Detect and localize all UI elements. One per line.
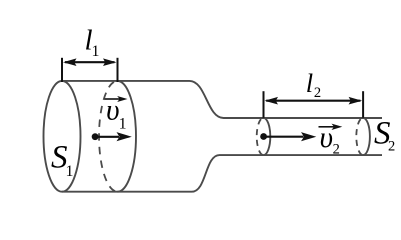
svg-text:2: 2 xyxy=(314,85,321,101)
svg-text:l: l xyxy=(306,68,313,98)
svg-text:2: 2 xyxy=(333,142,340,158)
svg-text:1: 1 xyxy=(66,163,74,180)
svg-text:1: 1 xyxy=(119,116,127,133)
node: cross-section ellipse at l1, dashed back half xyxy=(99,81,117,192)
wire: wide pipe bottom wall with taper into narrow tube bottom wall xyxy=(62,155,382,192)
svg-text:2: 2 xyxy=(388,139,395,155)
wire: velocity vector v2 thick arrow xyxy=(264,132,317,141)
wire: dimension tick left of l1 xyxy=(61,58,63,82)
wire: l1 double-headed dimension arrow xyxy=(63,58,117,66)
label v1 with vector accent arrow xyxy=(105,96,128,102)
node S2: narrow tube exit ellipse, dashed back half xyxy=(356,118,363,155)
wire: dimension tick right of l1 xyxy=(117,58,119,82)
wire: wide pipe top wall with taper into narrow tube top wall xyxy=(62,81,382,118)
wire: dimension tick right of l2 xyxy=(362,91,364,118)
svg-text:υ: υ xyxy=(106,95,120,127)
node: cross-section ellipse at l1, solid front half xyxy=(118,81,136,192)
svg-text:υ: υ xyxy=(320,122,334,154)
node: narrow tube entrance ellipse, solid front half xyxy=(264,118,271,155)
label v2 with vector accent arrow xyxy=(319,124,343,130)
node: narrow tube entrance ellipse, dashed back half xyxy=(257,118,264,155)
svg-text:1: 1 xyxy=(92,43,100,60)
node: flow marker dot in narrow tube xyxy=(260,133,267,140)
node: flow marker dot in wide cylinder xyxy=(92,133,99,140)
wire: dimension tick left of l2 xyxy=(263,91,265,118)
wire: velocity vector v1 thick arrow xyxy=(95,132,132,141)
wire: l2 double-headed dimension arrow xyxy=(265,97,363,105)
node S2: narrow tube exit ellipse, solid front half xyxy=(363,118,370,155)
node S1: left end face ellipse of wide cylinder xyxy=(44,81,81,192)
